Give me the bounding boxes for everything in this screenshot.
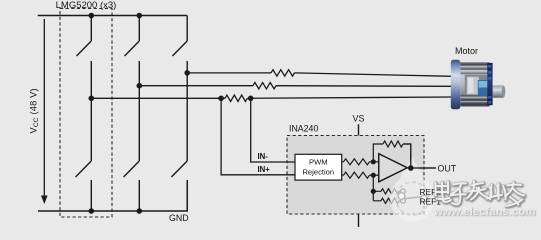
INA240 dashed box fill: [287, 136, 424, 215]
resistor phase B: [253, 83, 276, 89]
half-bridge 2 lower switch: [124, 86, 140, 211]
svg-text:IN+: IN+: [258, 165, 271, 174]
svg-text:PWM: PWM: [309, 158, 328, 167]
node top rail HB2: [137, 13, 143, 19]
node top rail HB1: [89, 13, 95, 19]
half-bridge 1 lower switch: [76, 98, 92, 211]
wire lower input to op-amp: [373, 174, 379, 176]
pin REF1: [401, 198, 406, 203]
pin REF2: [401, 189, 406, 194]
resistor input upper: [344, 159, 370, 165]
resistor REF2: [381, 189, 399, 194]
op-amp U1: [379, 154, 408, 182]
resistor shunt: [225, 95, 247, 101]
node shunt right: [248, 96, 254, 102]
node upper input: [371, 159, 376, 164]
node lower input: [371, 173, 376, 178]
motor image: [451, 60, 506, 109]
svg-text:Motor: Motor: [455, 46, 478, 56]
wire phase B (HB2) to motor: [139, 85, 453, 88]
resistor input lower: [344, 172, 370, 178]
half-bridge 3 lower switch: [171, 73, 187, 211]
node shunt left: [218, 96, 224, 102]
svg-text:www.elecfans.com: www.elecfans.com: [433, 206, 536, 218]
wire reference network: [373, 175, 400, 201]
PWM Rejection block: [295, 154, 342, 180]
wire feedback top: [373, 144, 436, 168]
node ref: [371, 189, 376, 194]
wire VS pin: [358, 124, 360, 135]
watermark hanzi: [436, 182, 525, 207]
watermark stamp: [390, 157, 435, 222]
node phase B tap: [137, 83, 143, 89]
wire phase A (HB3) to motor: [187, 73, 453, 76]
node GND rail HB2: [137, 208, 143, 214]
wire upper input to op-amp: [373, 161, 379, 163]
wire shunt right to IN-: [251, 98, 295, 162]
LMG5200 dashed box: [60, 9, 112, 218]
wire GND rail: [38, 180, 187, 211]
Vcc arrow: [43, 19, 45, 197]
wire bottom GND pin: [358, 214, 360, 227]
svg-text:INA240: INA240: [289, 124, 318, 134]
resistor phase A: [271, 70, 295, 76]
svg-text:VS: VS: [353, 114, 365, 124]
svg-text:GND: GND: [169, 213, 189, 223]
svg-text:OUT: OUT: [438, 164, 457, 174]
node phase A tap: [184, 70, 190, 76]
op-amp output redraw over stamp: [379, 154, 408, 182]
node GND rail HB1: [89, 208, 95, 214]
wire shunt left to IN+: [221, 98, 295, 175]
svg-text:Rejection: Rejection: [302, 168, 334, 177]
wire PWM out upper: [342, 161, 374, 163]
wire top rail: [38, 15, 188, 17]
svg-text:LMG5200 (x3): LMG5200 (x3): [56, 0, 117, 11]
svg-text:IN-: IN-: [258, 152, 269, 161]
resistor REF1: [381, 198, 399, 203]
half-bridge 3 upper switch: [172, 16, 187, 73]
node phase C tap: [89, 96, 95, 102]
resistor feedback: [383, 141, 403, 147]
wire phase C (HB1) to motor: [91, 97, 453, 98]
node output: [408, 165, 414, 171]
half-bridge 1 upper switch: [77, 16, 92, 99]
half-bridge 2 upper switch: [125, 16, 140, 86]
wire PWM out lower: [342, 174, 374, 176]
